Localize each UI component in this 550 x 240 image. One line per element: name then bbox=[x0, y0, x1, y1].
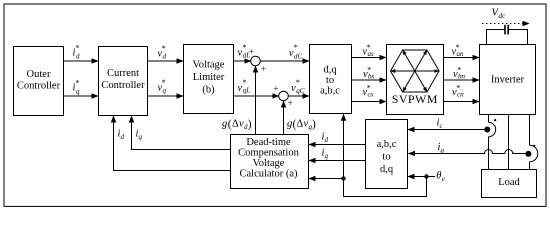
svg-text:+: + bbox=[288, 98, 293, 108]
svg-text:Limiter: Limiter bbox=[193, 72, 225, 83]
svg-text:Calculator (a): Calculator (a) bbox=[239, 169, 298, 180]
svg-text:*: * bbox=[76, 79, 80, 88]
svg-text:to: to bbox=[382, 152, 390, 163]
svg-text:SVPWM: SVPWM bbox=[392, 92, 438, 106]
svg-text:*: * bbox=[76, 44, 80, 53]
svg-text:a,b,c: a,b,c bbox=[320, 86, 340, 97]
svg-text:g: g bbox=[287, 119, 292, 130]
svg-text:Inverter: Inverter bbox=[491, 75, 525, 86]
svg-text:d: d bbox=[163, 52, 167, 60]
svg-text:Δ: Δ bbox=[232, 119, 239, 130]
svg-text:g: g bbox=[222, 119, 227, 130]
svg-text:*: * bbox=[296, 78, 300, 87]
svg-text:qL: qL bbox=[243, 87, 251, 95]
svg-text:Controller: Controller bbox=[101, 80, 145, 91]
svg-text:*: * bbox=[456, 84, 460, 93]
svg-text:Voltage: Voltage bbox=[253, 158, 285, 169]
svg-text:*: * bbox=[162, 78, 166, 87]
svg-text:d: d bbox=[121, 133, 125, 141]
svg-text:*: * bbox=[456, 43, 460, 52]
svg-text:d: d bbox=[325, 136, 329, 144]
svg-text:Compensation: Compensation bbox=[238, 148, 299, 159]
svg-text:d: d bbox=[76, 52, 80, 60]
svg-text:a,b,c: a,b,c bbox=[377, 139, 397, 150]
svg-text:Load: Load bbox=[498, 177, 520, 188]
svg-text:dC: dC bbox=[294, 53, 303, 61]
svg-text:Δ: Δ bbox=[297, 119, 304, 130]
svg-text:e: e bbox=[442, 175, 445, 183]
svg-text:*: * bbox=[243, 43, 247, 52]
svg-text:*: * bbox=[457, 66, 461, 75]
svg-text:to: to bbox=[326, 75, 334, 86]
svg-text:Voltage: Voltage bbox=[193, 60, 225, 71]
svg-text:+: + bbox=[261, 64, 266, 74]
svg-text:q: q bbox=[76, 87, 80, 95]
svg-text:*: * bbox=[367, 43, 371, 52]
svg-text:qC: qC bbox=[296, 87, 305, 95]
svg-text:): ) bbox=[248, 118, 252, 130]
svg-text:θ: θ bbox=[436, 171, 441, 182]
svg-text:Controller: Controller bbox=[17, 81, 61, 92]
svg-text:dc: dc bbox=[499, 12, 507, 20]
svg-text:+: + bbox=[273, 84, 278, 94]
svg-text:c: c bbox=[440, 122, 444, 130]
svg-text:*: * bbox=[367, 66, 371, 75]
svg-text:*: * bbox=[367, 84, 371, 93]
svg-text:*: * bbox=[243, 78, 247, 87]
svg-text:dL: dL bbox=[243, 51, 251, 59]
svg-text:a: a bbox=[441, 147, 445, 155]
svg-text:Outer: Outer bbox=[27, 69, 51, 80]
svg-text:*: * bbox=[294, 43, 298, 52]
svg-text:*: * bbox=[162, 44, 166, 53]
svg-text:Current: Current bbox=[107, 68, 139, 79]
svg-text:): ) bbox=[312, 118, 316, 130]
svg-text:Dead-time: Dead-time bbox=[246, 137, 291, 148]
svg-text:q: q bbox=[163, 86, 167, 94]
svg-text:d,q: d,q bbox=[380, 164, 394, 175]
svg-text:q: q bbox=[139, 133, 143, 141]
svg-text:d,q: d,q bbox=[323, 65, 337, 76]
svg-text:q: q bbox=[325, 152, 329, 160]
svg-text:(b): (b) bbox=[202, 85, 215, 96]
